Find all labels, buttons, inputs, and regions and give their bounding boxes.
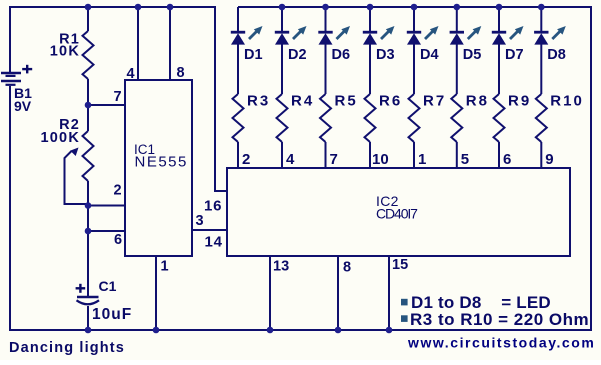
svg-text:7: 7 [114, 89, 122, 105]
svg-text:10uF: 10uF [92, 306, 132, 323]
svg-text:R9: R9 [508, 93, 531, 110]
svg-text:13: 13 [273, 259, 289, 275]
svg-text:2: 2 [114, 183, 122, 199]
svg-text:10: 10 [372, 151, 389, 168]
svg-text:7: 7 [330, 151, 338, 168]
svg-text:4: 4 [127, 66, 135, 82]
svg-text:R7: R7 [423, 93, 446, 110]
svg-text:D2: D2 [288, 47, 307, 63]
svg-text:www.circuitstoday.com: www.circuitstoday.com [407, 335, 595, 351]
svg-text:5: 5 [461, 151, 469, 168]
svg-text:CD40I7: CD40I7 [376, 206, 418, 222]
svg-text:15: 15 [392, 257, 408, 273]
svg-text:6: 6 [114, 232, 122, 248]
svg-text:D1: D1 [244, 47, 263, 63]
svg-text:9: 9 [545, 151, 553, 168]
svg-text:R10: R10 [550, 93, 584, 110]
svg-text:8: 8 [177, 65, 185, 81]
svg-text:R6: R6 [379, 93, 402, 110]
svg-text:NE555: NE555 [135, 154, 188, 171]
svg-text:D7: D7 [505, 47, 524, 63]
svg-text:1: 1 [418, 151, 426, 168]
svg-text:14: 14 [205, 234, 223, 251]
svg-text:C1: C1 [99, 278, 117, 294]
svg-text:10K: 10K [50, 44, 80, 60]
svg-text:D4: D4 [420, 47, 439, 63]
svg-text:100K: 100K [41, 130, 80, 146]
svg-text:Dancing lights: Dancing lights [9, 340, 125, 356]
svg-text:3: 3 [196, 213, 204, 229]
svg-text:D3: D3 [376, 47, 395, 63]
svg-text:R3 to R10 = 220 Ohm: R3 to R10 = 220 Ohm [410, 310, 589, 329]
svg-text:16: 16 [204, 198, 222, 215]
svg-text:R5: R5 [335, 93, 358, 110]
svg-text:6: 6 [503, 151, 511, 168]
svg-text:D5: D5 [463, 47, 482, 63]
svg-text:D8: D8 [547, 47, 566, 63]
svg-text:9V: 9V [14, 98, 32, 114]
svg-text:1: 1 [161, 259, 169, 275]
svg-text:D6: D6 [332, 47, 351, 63]
svg-text:R8: R8 [466, 93, 489, 110]
svg-text:4: 4 [286, 151, 295, 168]
svg-text:R3: R3 [247, 93, 270, 110]
svg-text:2: 2 [242, 151, 250, 168]
svg-text:R4: R4 [291, 93, 314, 110]
svg-text:8: 8 [343, 260, 351, 276]
